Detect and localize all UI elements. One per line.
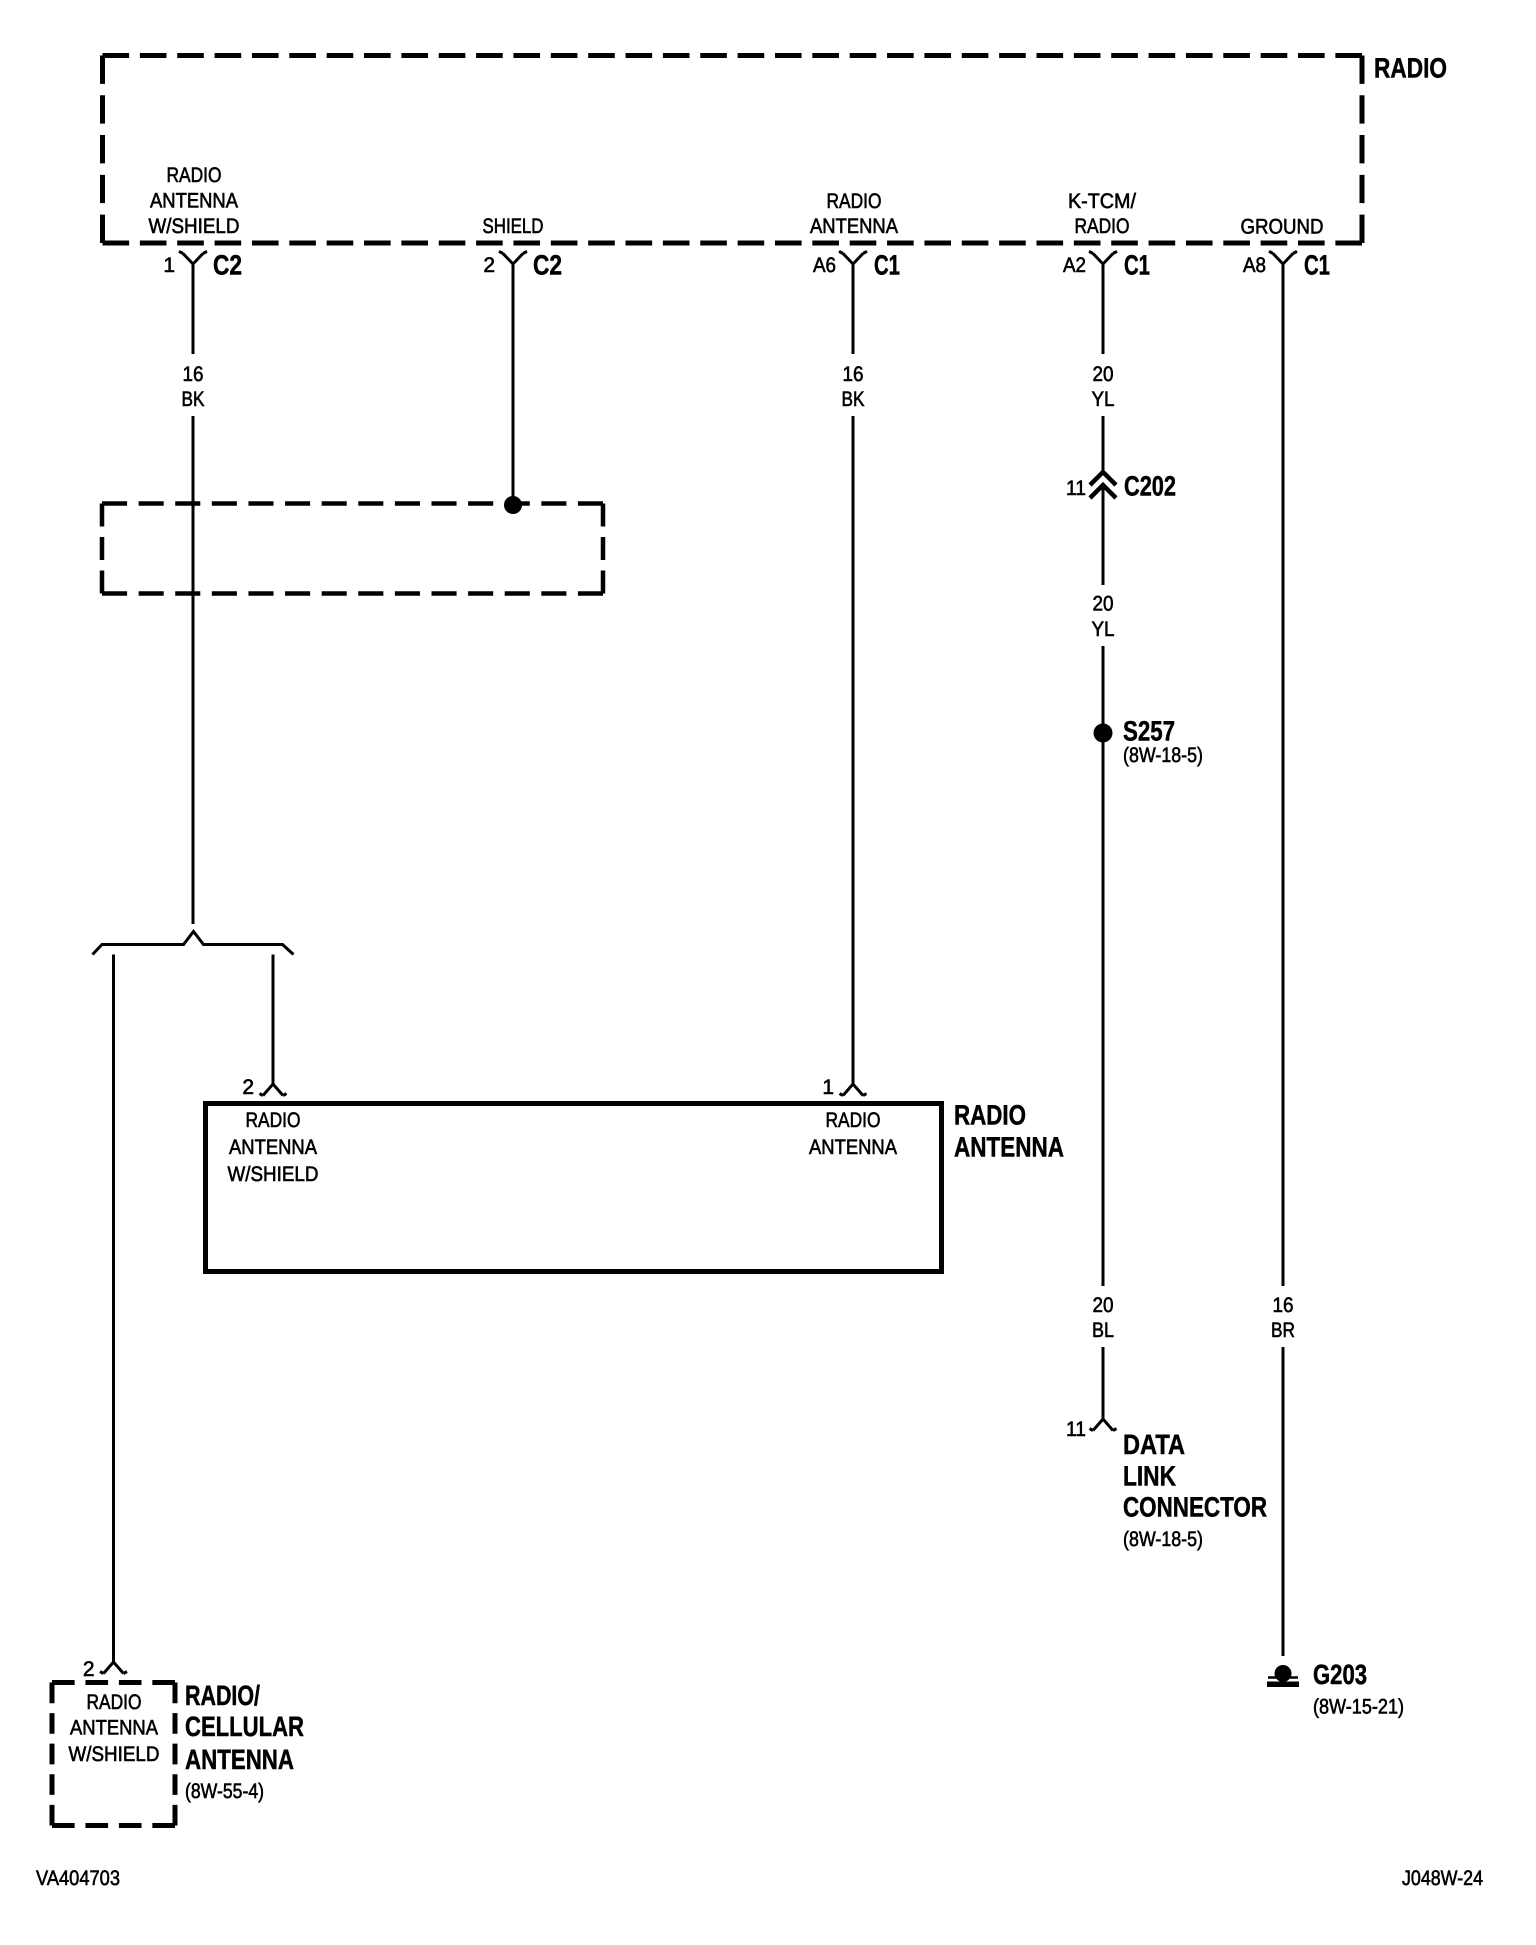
svg-text:SHIELD: SHIELD	[483, 215, 544, 238]
svg-text:CONNECTOR: CONNECTOR	[1123, 1492, 1267, 1523]
svg-text:(8W-55-4): (8W-55-4)	[185, 1780, 264, 1803]
svg-text:ANTENNA: ANTENNA	[70, 1717, 158, 1740]
svg-text:1: 1	[822, 1076, 834, 1099]
svg-text:W/SHIELD: W/SHIELD	[228, 1163, 319, 1186]
svg-text:A2: A2	[1063, 254, 1086, 277]
svg-text:C1: C1	[874, 250, 900, 281]
svg-text:RADIO: RADIO	[1075, 215, 1130, 238]
svg-text:YL: YL	[1092, 388, 1115, 411]
svg-text:W/SHIELD: W/SHIELD	[149, 215, 240, 238]
svg-text:YL: YL	[1092, 618, 1115, 641]
svg-text:A6: A6	[813, 254, 836, 277]
svg-text:ANTENNA: ANTENNA	[810, 215, 898, 238]
svg-text:RADIO: RADIO	[167, 164, 222, 187]
svg-text:ANTENNA: ANTENNA	[954, 1132, 1064, 1163]
svg-text:2: 2	[242, 1076, 254, 1099]
svg-text:G203: G203	[1313, 1659, 1367, 1690]
svg-text:BL: BL	[1092, 1319, 1114, 1342]
svg-text:16: 16	[183, 363, 204, 386]
svg-text:LINK: LINK	[1123, 1461, 1176, 1492]
svg-text:20: 20	[1093, 363, 1114, 386]
svg-text:DATA: DATA	[1123, 1429, 1185, 1460]
svg-text:C202: C202	[1124, 471, 1176, 502]
svg-text:RADIO: RADIO	[87, 1691, 142, 1714]
svg-text:C2: C2	[533, 250, 562, 281]
svg-text:16: 16	[1273, 1294, 1294, 1317]
svg-text:ANTENNA: ANTENNA	[185, 1744, 294, 1775]
svg-text:ANTENNA: ANTENNA	[150, 190, 238, 213]
svg-text:2: 2	[83, 1658, 95, 1681]
svg-text:A8: A8	[1243, 254, 1266, 277]
svg-text:GROUND: GROUND	[1241, 216, 1324, 239]
svg-text:C1: C1	[1124, 250, 1150, 281]
svg-text:16: 16	[843, 363, 864, 386]
svg-text:BK: BK	[842, 388, 865, 411]
svg-text:S257: S257	[1123, 716, 1175, 747]
svg-text:K-TCM/: K-TCM/	[1068, 190, 1136, 213]
svg-text:(8W-18-5): (8W-18-5)	[1123, 744, 1203, 767]
svg-text:(8W-15-21): (8W-15-21)	[1313, 1696, 1404, 1719]
svg-text:2: 2	[483, 254, 495, 277]
svg-text:RADIO: RADIO	[1374, 53, 1447, 84]
svg-text:VA404703: VA404703	[36, 1867, 120, 1890]
svg-text:(8W-18-5): (8W-18-5)	[1123, 1528, 1203, 1551]
svg-text:11: 11	[1066, 477, 1086, 500]
svg-text:ANTENNA: ANTENNA	[809, 1136, 897, 1159]
svg-text:C2: C2	[213, 250, 242, 281]
svg-text:ANTENNA: ANTENNA	[229, 1136, 317, 1159]
svg-text:RADIO: RADIO	[954, 1100, 1026, 1131]
svg-text:1: 1	[163, 254, 175, 277]
svg-text:BR: BR	[1271, 1319, 1295, 1342]
svg-text:11: 11	[1066, 1418, 1086, 1441]
svg-text:W/SHIELD: W/SHIELD	[69, 1743, 160, 1766]
svg-text:20: 20	[1093, 1294, 1114, 1317]
svg-text:CELLULAR: CELLULAR	[185, 1711, 304, 1742]
svg-text:RADIO: RADIO	[827, 190, 882, 213]
svg-text:C1: C1	[1304, 250, 1330, 281]
svg-text:RADIO: RADIO	[246, 1109, 301, 1132]
svg-text:20: 20	[1093, 593, 1114, 616]
svg-text:RADIO/: RADIO/	[185, 1680, 260, 1711]
svg-text:RADIO: RADIO	[826, 1109, 881, 1132]
svg-text:BK: BK	[182, 388, 205, 411]
svg-text:J048W-24: J048W-24	[1402, 1867, 1483, 1890]
